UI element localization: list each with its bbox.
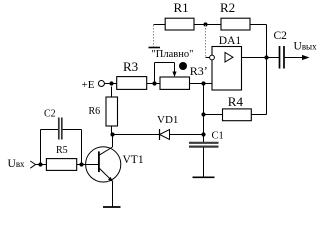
resistor R4	[223, 94, 252, 121]
wire vertical rail	[203, 84, 205, 143]
node VD1 junction	[201, 132, 205, 136]
potentiometer R3' body	[160, 77, 190, 89]
label R3'	[190, 64, 208, 78]
node bullet marker	[179, 62, 187, 70]
wire R6 bottom	[111, 126, 113, 135]
svg-text:R6: R6	[89, 106, 101, 117]
terminal +E circle	[98, 81, 104, 87]
node collector junction	[110, 132, 114, 136]
capacitor C2 (output)	[274, 30, 288, 69]
label +E	[82, 79, 95, 91]
svg-text:R1: R1	[174, 0, 189, 15]
svg-text:C2: C2	[274, 30, 288, 42]
wire emitter down	[112, 182, 114, 207]
wire collector up	[112, 135, 114, 148]
label Uvh	[8, 158, 26, 170]
svg-text:"Плавно": "Плавно"	[152, 49, 194, 60]
svg-text:C2: C2	[44, 109, 56, 120]
wire R5 to base	[77, 164, 99, 166]
wire VD1 horizontal	[113, 134, 204, 136]
resistor R2	[220, 0, 250, 30]
ground bar under C1	[193, 176, 215, 178]
wiper of potentiometer	[155, 63, 177, 84]
svg-text:+E: +E	[82, 79, 95, 91]
wire op-amp output	[242, 57, 280, 59]
diode VD1	[157, 114, 178, 140]
wire stub into op-amp bubble	[206, 57, 211, 59]
wire +E to R3	[104, 83, 116, 85]
resistor R3	[117, 59, 147, 89]
svg-text:R3: R3	[123, 59, 138, 74]
wire R1 to R2	[194, 24, 221, 26]
ground bar under emitter	[103, 206, 121, 208]
svg-text:DA1: DA1	[219, 35, 242, 47]
node R4 left junction	[201, 112, 205, 116]
node pot left junction	[152, 81, 156, 85]
wire output arrow	[284, 55, 310, 60]
svg-text:R5: R5	[56, 145, 68, 156]
wire R1 left stub	[154, 24, 166, 26]
resistor R5	[46, 145, 76, 170]
svg-text:VD1: VD1	[157, 114, 178, 126]
wire R3 to potentiometer	[147, 83, 160, 85]
resistor R1	[165, 0, 194, 30]
wire feedback rail down to R4	[251, 58, 266, 115]
wire input to R5	[36, 164, 47, 166]
wire R2 right to output rail	[250, 25, 267, 58]
node base junction	[79, 162, 83, 166]
wire R6 top	[111, 87, 113, 98]
svg-text:Uвх: Uвх	[8, 158, 26, 170]
transistor VT1	[86, 147, 144, 182]
wire R4 left to rail	[204, 114, 223, 116]
terminal bar "Plavno"	[149, 47, 161, 49]
svg-text:Uвых: Uвых	[294, 41, 318, 53]
label "Plavno"	[152, 49, 194, 60]
wire dotted feedback to inverting input	[205, 25, 207, 58]
wire pot to op-amp input	[190, 83, 213, 85]
op-amp DA1	[210, 35, 242, 90]
wire dotted link to Plavno terminal	[153, 25, 155, 47]
input chevron	[30, 161, 35, 168]
svg-text:C1: C1	[212, 131, 224, 142]
resistor R6	[89, 97, 118, 126]
label Uvyh	[294, 41, 318, 53]
svg-text:R2: R2	[220, 0, 235, 15]
capacitor C2 (feedback over R5)	[41, 109, 82, 165]
node junction R1/R2	[203, 22, 207, 26]
svg-text:R4: R4	[228, 94, 244, 109]
node output junction	[264, 55, 268, 59]
node input junction	[38, 162, 42, 166]
svg-text:VT1: VT1	[123, 154, 144, 166]
svg-text:R3ʼ: R3ʼ	[190, 64, 208, 78]
node +E/R6 junction	[109, 81, 113, 85]
wire C1 to ground	[203, 148, 205, 178]
capacitor C1	[189, 131, 224, 147]
node rail top junction	[201, 81, 205, 85]
